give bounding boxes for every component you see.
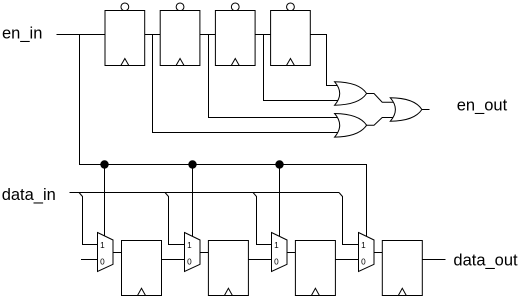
svg-text:1: 1 <box>361 241 366 250</box>
wire tap FF3 output to OR gate U5 bottom input <box>264 35 342 101</box>
wire mux M1 output to FF5 <box>113 252 122 254</box>
wire select drop to mux M1 <box>104 165 106 239</box>
wire stub mux M1 input 0 <box>81 259 98 261</box>
svg-text:data_in: data_in <box>2 186 56 204</box>
junction dot select bus / mux M1 <box>100 160 108 168</box>
wire select drop to mux M3 <box>279 165 281 239</box>
svg-text:data_out: data_out <box>453 252 518 270</box>
wire OR gate U6 output to U7 input <box>367 118 394 126</box>
svg-text:0: 0 <box>361 257 366 266</box>
mux M2 <box>185 233 201 272</box>
wire FF3->FF4 <box>255 34 271 36</box>
junction dot select bus / mux M2 <box>188 160 196 168</box>
svg-text:1: 1 <box>100 241 105 250</box>
svg-text:en_out: en_out <box>457 96 508 114</box>
or-gate U5 <box>335 82 367 105</box>
wire data tap to mux M3 input 1 <box>253 193 272 245</box>
svg-text:1: 1 <box>274 241 279 250</box>
wire enable select bus (en_in down, across, down to mux M4) <box>80 35 367 239</box>
mux M3 <box>272 233 288 272</box>
svg-text:0: 0 <box>100 257 105 266</box>
flip-flop FF6 (data chain) <box>208 241 248 296</box>
flip-flop FF7 (data chain) <box>295 241 335 296</box>
or-gate U6 <box>335 114 367 138</box>
mux M4 <box>359 233 375 272</box>
wire data tap to mux M4 input 1 <box>339 193 359 245</box>
svg-text:en_in: en_in <box>2 25 42 43</box>
flip-flop FF4 (enable chain) <box>271 3 311 66</box>
wire mux M2 output to FF6 <box>200 252 208 254</box>
svg-text:0: 0 <box>187 257 192 266</box>
wire FF8 output data_out <box>422 259 445 261</box>
wire data tap to mux M1 input 1 <box>79 193 98 245</box>
junction dot select bus / mux M3 <box>275 160 283 168</box>
wire data_in bus <box>70 192 340 194</box>
wire FF1->FF2 <box>145 34 161 36</box>
wire mux M3 output to FF7 <box>287 252 295 254</box>
flip-flop FF2 (enable chain) <box>160 3 200 66</box>
wire FF5 output to mux M2 input 0 <box>162 259 185 261</box>
wire en_in input <box>57 34 106 36</box>
wire FF7 output to mux M4 input 0 <box>335 259 358 261</box>
wire OR gate U5 output to U7 input <box>367 94 394 103</box>
wire tap FF2 output to OR gate U6 top input <box>209 35 342 118</box>
flip-flop FF5 (data chain) <box>122 241 162 296</box>
mux M1 <box>98 233 114 272</box>
wire data tap to mux M2 input 1 <box>165 193 185 245</box>
wire tap FF1 output to OR gate U6 bottom input <box>153 35 342 133</box>
svg-text:0: 0 <box>274 257 279 266</box>
wire FF4 output to OR gate U5 top input <box>310 35 341 86</box>
flip-flop FF8 (data chain) <box>382 241 422 296</box>
or-gate U7 <box>390 98 422 121</box>
wire mux M4 output to FF8 <box>374 252 382 254</box>
flip-flop FF1 (enable chain) <box>105 3 145 66</box>
flip-flop FF3 (enable chain) <box>215 3 255 66</box>
wire FF2->FF3 <box>200 34 216 36</box>
svg-text:1: 1 <box>187 241 192 250</box>
wire FF6 output to mux M3 input 0 <box>248 259 271 261</box>
wire select drop to mux M2 <box>192 165 194 239</box>
wire OR gate U7 output en_out <box>422 109 430 111</box>
